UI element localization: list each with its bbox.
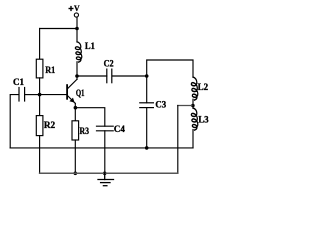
svg-text:R2: R2 [44, 120, 55, 131]
svg-text:L2: L2 [198, 82, 209, 93]
wire C1 to base node [25, 94, 39, 96]
wire L1 top [76, 29, 78, 42]
node C4 rail junction [103, 172, 107, 176]
node collector junction [75, 74, 79, 78]
wire base node to R2 [39, 95, 41, 116]
wire C1 left and left riser [10, 95, 18, 148]
inductor L3 [191, 108, 197, 130]
node R3 rail junction [74, 172, 78, 176]
transistor Q1 [67, 76, 77, 108]
wire tap riser to lower rail [177, 106, 179, 174]
node tank top junction [145, 74, 149, 78]
svg-text:L3: L3 [198, 115, 209, 126]
wire base to transistor [40, 94, 67, 96]
svg-text:R1: R1 [45, 65, 55, 76]
svg-text:L1: L1 [85, 41, 95, 52]
wire tap horizontal [178, 105, 193, 107]
wire L2 bottom to tap [192, 99, 194, 105]
wire emitter to C4 [75, 108, 104, 127]
+V terminal circle [74, 13, 78, 17]
wire R1 bottom [39, 78, 41, 95]
wire C3 top [146, 76, 148, 103]
resistor R1 [36, 59, 43, 78]
ground [98, 173, 114, 185]
wire C3 bottom to upper rail [146, 108, 148, 148]
capacitor C2 [107, 69, 112, 83]
svg-text:Q1: Q1 [76, 88, 85, 99]
capacitor C3 [140, 103, 154, 108]
capacitor C4 [97, 126, 114, 131]
wire top branch horizontal [40, 28, 77, 30]
wire L3 top [192, 106, 194, 109]
node top junction [75, 27, 79, 31]
node base junction [38, 93, 42, 97]
wire lower rail [40, 172, 178, 174]
svg-text:C4: C4 [114, 124, 125, 135]
wire C2 to tank node [112, 75, 146, 77]
capacitor C1 [19, 88, 25, 102]
wire R2 bottom to lower rail [39, 136, 41, 174]
node emitter junction [74, 106, 78, 110]
wire L1 bottom to collector node [76, 62, 78, 76]
wire L3 bottom to upper rail riser [192, 130, 194, 148]
wire upper rail [10, 147, 193, 149]
svg-text:C3: C3 [155, 100, 166, 111]
wire R3 bottom to lower rail [74, 140, 76, 173]
node tap junction [191, 104, 195, 108]
wire tank top link to L2 [147, 60, 193, 77]
svg-text:V: V [74, 3, 80, 13]
wire +V to top node [76, 17, 78, 28]
inductor L2 [191, 77, 197, 100]
svg-text:C1: C1 [13, 77, 24, 88]
resistor R3 [72, 121, 79, 140]
wire R3 top [74, 108, 76, 121]
node C3 rail junction [145, 146, 149, 150]
wire R1 top vertical [39, 29, 41, 60]
wire collector to C2 [77, 75, 107, 77]
wire C4 bottom to lower rail [104, 131, 106, 174]
svg-text:R3: R3 [80, 126, 90, 137]
inductor L1 [75, 42, 81, 62]
+V supply label [69, 7, 73, 11]
svg-text:C2: C2 [104, 59, 114, 70]
resistor R2 [36, 116, 43, 136]
